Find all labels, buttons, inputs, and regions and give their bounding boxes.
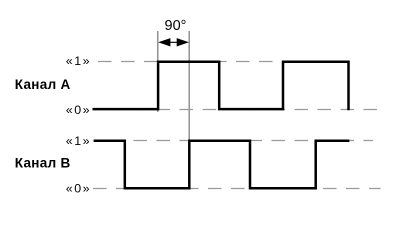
svg-text:Канал В: Канал В — [15, 156, 71, 171]
svg-text:90°: 90° — [165, 18, 187, 34]
svg-text:«1»: «1» — [66, 54, 91, 68]
svg-text:Канал А: Канал А — [15, 77, 71, 92]
svg-text:«0»: «0» — [66, 103, 91, 117]
svg-text:«1»: «1» — [66, 134, 91, 148]
svg-text:«0»: «0» — [66, 182, 91, 196]
